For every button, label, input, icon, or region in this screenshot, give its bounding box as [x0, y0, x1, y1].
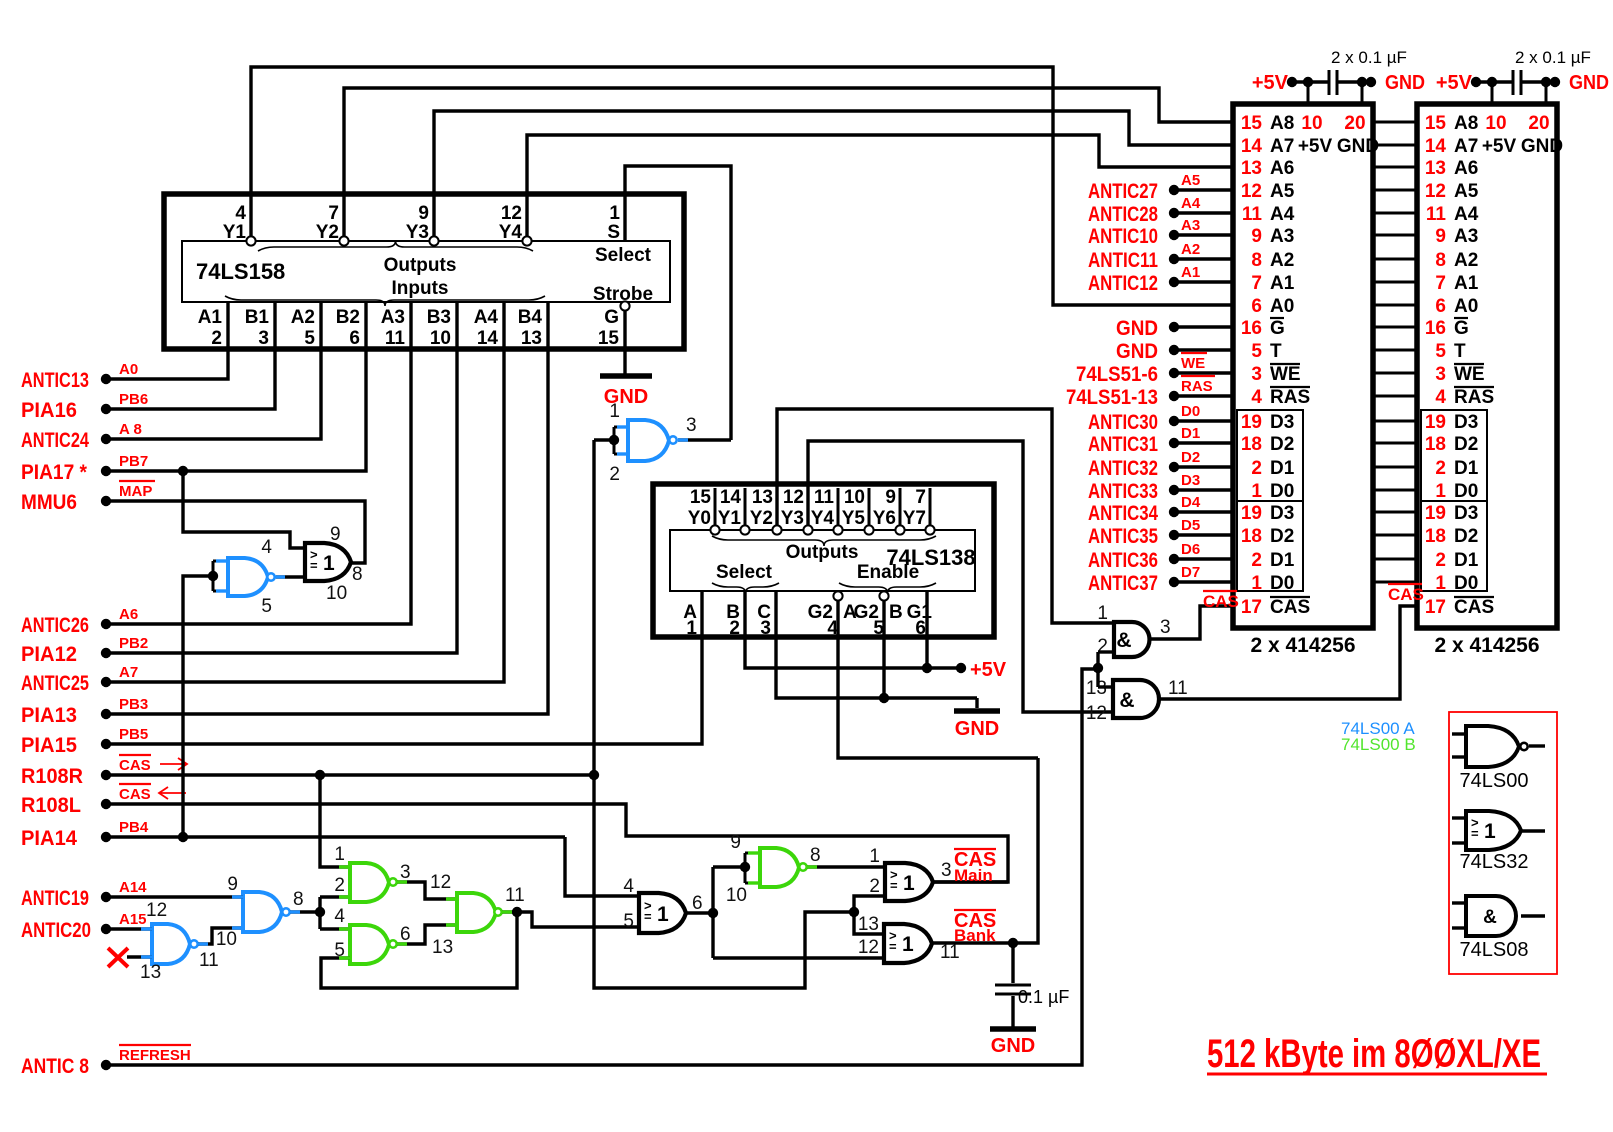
svg-text:D1: D1: [1454, 458, 1479, 479]
ground symbol U1 strobe: [600, 373, 652, 379]
svg-text:12: 12: [146, 900, 167, 921]
svg-text:12: 12: [858, 937, 879, 958]
svg-text:ANTIC28: ANTIC28: [1088, 203, 1158, 226]
svg-text:12: 12: [1425, 181, 1446, 202]
svg-text:A4: A4: [1270, 204, 1295, 225]
svg-text:4: 4: [261, 537, 272, 558]
svg-text:RAS: RAS: [1454, 387, 1494, 408]
svg-text:16: 16: [1241, 318, 1262, 339]
svg-text:9: 9: [885, 487, 896, 508]
wire B1 pin to PB6: [106, 302, 275, 409]
svg-text:3: 3: [1160, 617, 1171, 638]
svg-text:Y0: Y0: [688, 508, 711, 529]
U5 pin 9 circle: [895, 525, 904, 534]
74LS00A gate U2C body (A14): [243, 892, 282, 932]
svg-text:A3: A3: [381, 307, 405, 328]
74LS00B gate U4B body: [350, 925, 389, 964]
svg-text:2: 2: [609, 464, 620, 485]
svg-text:D2: D2: [1454, 434, 1478, 455]
svg-text:A0: A0: [1454, 296, 1478, 317]
svg-text:A4: A4: [1181, 195, 1201, 212]
wire PB7 branch to OR pin9: [183, 471, 305, 548]
svg-text:2: 2: [334, 875, 345, 896]
junction PB4: [178, 832, 188, 842]
svg-text:PIA16: PIA16: [21, 399, 77, 422]
svg-text:+5V: +5V: [1436, 72, 1473, 94]
svg-text:12: 12: [1241, 181, 1262, 202]
brace outputs U1: [258, 241, 533, 251]
U3C output wire: [933, 880, 1008, 883]
U3B output wire: [686, 911, 713, 914]
wire A14 to U2C pin9: [106, 895, 243, 898]
svg-text:A3: A3: [1270, 226, 1294, 247]
svg-text:15: 15: [1241, 113, 1263, 134]
svg-text:PB3: PB3: [119, 696, 148, 713]
svg-text:A0: A0: [119, 361, 138, 378]
U4C output wire: [502, 912, 639, 927]
svg-text:2: 2: [1251, 550, 1262, 571]
svg-text:14: 14: [1425, 136, 1447, 157]
svg-text:D1: D1: [1454, 550, 1479, 571]
svg-text:2: 2: [1435, 458, 1446, 479]
svg-text:A15: A15: [119, 911, 147, 928]
svg-text:18: 18: [1425, 434, 1446, 455]
svg-text:10: 10: [1485, 113, 1506, 134]
svg-text:1: 1: [1097, 603, 1108, 624]
U1 output pin circle x=344: [339, 236, 348, 245]
wire PB4 to OR pin4: [565, 837, 639, 896]
GND terminal C1: [1357, 77, 1367, 87]
74LS00B gate U4C body: [457, 893, 496, 932]
svg-text:S: S: [607, 222, 620, 243]
svg-text:15: 15: [690, 487, 712, 508]
U5 pin 12 circle: [803, 525, 812, 534]
svg-text:15: 15: [598, 328, 620, 349]
wire Y3 to A7: [434, 111, 1233, 236]
wire U5 pin B to +5V: [745, 591, 961, 668]
svg-text:9: 9: [418, 203, 429, 224]
74LS00B gate U4D body: [760, 848, 799, 887]
C1 pin stubs: [1307, 82, 1310, 104]
U1 strobe pin circle: [620, 301, 629, 310]
74LS00B gate U4D bubble: [799, 863, 806, 870]
U1 output pin circle x=527: [522, 236, 531, 245]
U5 pin 10 stub: [868, 488, 871, 525]
svg-text:1: 1: [334, 844, 345, 865]
74LS32 gate U3C body (CAS Main): [885, 863, 933, 901]
U5 pin 7 stub: [929, 488, 932, 525]
ground symbol U5: [954, 708, 1000, 714]
svg-text:17: 17: [1241, 597, 1262, 618]
svg-text:2: 2: [1435, 550, 1446, 571]
X no-connect mark: [108, 948, 128, 967]
svg-text:18: 18: [1241, 434, 1262, 455]
wire CAS right line: [106, 773, 594, 776]
svg-text:D0: D0: [1454, 573, 1478, 594]
svg-text:A2: A2: [1454, 250, 1478, 271]
svg-text:A6: A6: [1454, 158, 1478, 179]
IC U1 74LS158 inner box: [182, 241, 670, 302]
svg-text:8: 8: [293, 889, 304, 910]
svg-text:20: 20: [1344, 113, 1365, 134]
svg-text:1: 1: [1251, 573, 1262, 594]
svg-text:4: 4: [235, 203, 246, 224]
svg-text:+5V: +5V: [1298, 136, 1333, 157]
svg-text:15: 15: [1425, 113, 1447, 134]
svg-text:Y1: Y1: [223, 222, 247, 243]
U2D output wire: [198, 928, 243, 944]
svg-text:Inputs: Inputs: [392, 278, 449, 299]
svg-text:1: 1: [903, 872, 915, 895]
svg-text:ANTIC34: ANTIC34: [1088, 502, 1158, 525]
svg-text:T: T: [1270, 341, 1282, 362]
svg-text:RAS: RAS: [1181, 378, 1213, 395]
svg-text:4: 4: [1435, 387, 1446, 408]
svg-text:CAS: CAS: [119, 757, 151, 774]
74LS00A gate U2D body (A15): [152, 924, 190, 964]
U5 pin 14 circle: [740, 525, 749, 534]
svg-text:REFRESH: REFRESH: [119, 1047, 191, 1064]
svg-text:6: 6: [1435, 296, 1446, 317]
svg-text:4: 4: [334, 906, 345, 927]
C2 pin stubs: [1491, 82, 1494, 104]
74LS00A gate U2A body: [628, 420, 669, 461]
svg-text:74LS158: 74LS158: [196, 259, 285, 284]
svg-text:WE: WE: [1454, 364, 1485, 385]
svg-text:G: G: [1270, 318, 1285, 339]
svg-text:R108L: R108L: [21, 794, 81, 817]
74LS00B gate U4B bubble: [389, 940, 396, 947]
svg-text:1: 1: [323, 552, 335, 575]
svg-text:=: =: [310, 558, 318, 573]
svg-text:A7: A7: [1270, 136, 1294, 157]
svg-text:B4: B4: [518, 307, 543, 328]
junction G2B/GND: [879, 693, 889, 703]
svg-text:A5: A5: [1181, 172, 1200, 189]
svg-text:D7: D7: [1181, 564, 1200, 581]
svg-text:GND: GND: [1337, 136, 1379, 157]
svg-text:19: 19: [1425, 412, 1446, 433]
U4B pin5 feedback wire: [321, 912, 517, 988]
svg-text:74LS51-6: 74LS51-6: [1076, 363, 1158, 386]
svg-text:PB7: PB7: [119, 453, 148, 470]
74LS00A gate U2B bubble: [267, 573, 274, 580]
svg-text:A1: A1: [1181, 264, 1200, 281]
74LS08 gate U6B body: [1113, 680, 1159, 718]
74LS00B gate U4A bubble: [389, 878, 396, 885]
svg-text:2: 2: [869, 876, 880, 897]
svg-text:CAS: CAS: [1270, 597, 1310, 618]
svg-text:ANTIC26: ANTIC26: [21, 614, 89, 637]
U5 pin 15 stub: [714, 488, 717, 525]
svg-text:13: 13: [858, 914, 879, 935]
svg-text:10: 10: [216, 929, 237, 950]
svg-text:Y7: Y7: [903, 508, 926, 529]
svg-text:WE: WE: [1181, 355, 1205, 372]
svg-text:GND: GND: [1385, 72, 1425, 94]
svg-text:12: 12: [430, 872, 451, 893]
svg-text:GND: GND: [1569, 72, 1609, 94]
svg-text:9: 9: [1251, 226, 1262, 247]
svg-text:Outputs: Outputs: [384, 255, 457, 276]
svg-text:Y1: Y1: [718, 508, 742, 529]
svg-text:T: T: [1454, 341, 1466, 362]
svg-text:D3: D3: [1270, 503, 1294, 524]
74LS00A gate U2A bubble: [669, 436, 676, 443]
svg-text:PB5: PB5: [119, 726, 148, 743]
svg-text:7: 7: [1435, 273, 1446, 294]
74LS00A gate U2C bubble: [282, 908, 289, 915]
U5 pin 9 stub: [899, 488, 902, 525]
wire A4 pin to A7: [106, 302, 504, 682]
svg-text:10: 10: [326, 583, 347, 604]
svg-text:Y4: Y4: [499, 222, 523, 243]
svg-text:PB4: PB4: [119, 819, 149, 836]
U5 G2A circle: [833, 591, 842, 600]
wire to CAS-Main pin2: [854, 896, 885, 912]
svg-text:ANTIC37: ANTIC37: [1088, 572, 1158, 595]
legend 74LS00 gate: [1452, 732, 1467, 735]
svg-text:Y3: Y3: [781, 508, 804, 529]
svg-text:8: 8: [810, 845, 821, 866]
svg-text:ANTIC25: ANTIC25: [21, 672, 89, 695]
svg-text:2 x 0.1 µF: 2 x 0.1 µF: [1331, 48, 1407, 67]
74LS32 gate U3A body (MAP or-gate): [305, 543, 351, 581]
U7 D-group box 1: [1237, 410, 1303, 501]
svg-text:7: 7: [328, 203, 339, 224]
svg-text:11: 11: [199, 950, 219, 971]
svg-text:A 8: A 8: [119, 421, 142, 438]
svg-text:2: 2: [1251, 458, 1262, 479]
ground symbol C3: [990, 1026, 1036, 1032]
junction CAS Bank out: [1008, 938, 1018, 948]
svg-text:13: 13: [521, 328, 542, 349]
wires between U7 and U8: [1373, 121, 1417, 124]
wire CAS-left from CAS-Main output: [106, 804, 1008, 882]
junction PB7: [178, 466, 188, 476]
legend box: [1449, 712, 1557, 974]
svg-text:=: =: [1471, 826, 1479, 841]
svg-text:9: 9: [330, 524, 341, 545]
svg-text:19: 19: [1425, 503, 1446, 524]
svg-text:A7: A7: [119, 664, 138, 681]
legend 74LS08 gate: [1452, 901, 1467, 904]
svg-text:13: 13: [432, 937, 453, 958]
wire GND stub U5: [975, 698, 978, 708]
wire to CAS-Bank pin13: [854, 912, 884, 934]
svg-text:&: &: [1116, 629, 1131, 652]
wire B4 pin to PB3: [106, 302, 548, 714]
svg-text:PIA17 *: PIA17 *: [21, 461, 88, 484]
svg-text:10: 10: [1301, 113, 1322, 134]
U2B output wire: [276, 575, 305, 578]
svg-text:5: 5: [1435, 341, 1446, 362]
svg-text:6: 6: [692, 893, 703, 914]
U5 G2B circle: [879, 591, 888, 600]
svg-text:11: 11: [505, 885, 525, 906]
U5 pin 14 stub: [744, 488, 747, 525]
svg-text:2 x 0.1 µF: 2 x 0.1 µF: [1515, 48, 1591, 67]
U4A output wire: [397, 882, 457, 899]
junction REFRESH: [1093, 663, 1103, 673]
svg-text:PIA13: PIA13: [21, 704, 77, 727]
svg-text:13: 13: [752, 487, 773, 508]
wire U3B out to CASBank pin12: [713, 956, 884, 959]
svg-text:6: 6: [1251, 296, 1262, 317]
svg-text:Select: Select: [595, 245, 652, 266]
wire CAS to green NAND1 pin1: [320, 775, 350, 867]
svg-text:6: 6: [349, 328, 360, 349]
svg-text:11: 11: [940, 942, 960, 963]
svg-text:2 x 414256: 2 x 414256: [1250, 634, 1355, 657]
svg-text:17: 17: [1425, 597, 1446, 618]
svg-text:A8: A8: [1454, 113, 1478, 134]
svg-text:13: 13: [1425, 158, 1446, 179]
wire U5 pin C to GND: [776, 591, 977, 698]
U1 output pin circle x=434: [429, 236, 438, 245]
svg-text:9: 9: [1435, 226, 1446, 247]
svg-text:14: 14: [720, 487, 742, 508]
svg-text:ANTIC33: ANTIC33: [1088, 480, 1158, 503]
svg-text:A1: A1: [1454, 273, 1479, 294]
svg-text:6: 6: [915, 618, 926, 639]
wire U2C out to green pins 2/4: [318, 897, 321, 929]
svg-text:WE: WE: [1270, 364, 1301, 385]
U3D output wire: [932, 758, 1038, 943]
svg-text:A5: A5: [1270, 181, 1295, 202]
svg-text:1: 1: [1435, 481, 1446, 502]
svg-text:10: 10: [726, 885, 747, 906]
svg-text:D2: D2: [1454, 526, 1478, 547]
svg-text:D6: D6: [1181, 541, 1200, 558]
svg-text:D1: D1: [1181, 425, 1200, 442]
svg-text:ANTIC10: ANTIC10: [1088, 225, 1158, 248]
svg-text:ANTIC32: ANTIC32: [1088, 457, 1158, 480]
svg-text:D3: D3: [1181, 472, 1200, 489]
IC U7 2x414256 box: [1233, 104, 1373, 628]
wire X to U2D pin13: [127, 955, 152, 958]
wire B3 pin to PB2: [106, 302, 457, 653]
svg-text:8: 8: [352, 564, 363, 585]
svg-text:8: 8: [1251, 250, 1262, 271]
svg-text:Y2: Y2: [316, 222, 339, 243]
wire PB5 to 74LS138 pin A: [106, 591, 702, 744]
junction U4C out: [512, 907, 522, 917]
svg-text:74LS08: 74LS08: [1460, 939, 1529, 961]
svg-text:Y6: Y6: [873, 508, 896, 529]
svg-text:A2: A2: [1270, 250, 1294, 271]
wire G strobe to GND: [623, 311, 626, 374]
svg-text:A8: A8: [1270, 113, 1294, 134]
svg-text:=: =: [890, 878, 898, 893]
74LS08 gate U6A body: [1114, 622, 1150, 657]
svg-text:19: 19: [1241, 503, 1262, 524]
svg-text:11: 11: [385, 328, 406, 349]
junction G1/+5V: [922, 663, 932, 673]
svg-text:+5V: +5V: [1482, 136, 1517, 157]
svg-text:12: 12: [501, 203, 522, 224]
capacitor C3: [995, 984, 1031, 987]
svg-text:MMU6: MMU6: [21, 491, 77, 514]
svg-text:PIA12: PIA12: [21, 643, 77, 666]
svg-text:3: 3: [686, 415, 697, 436]
wire Y1 to A0: [251, 67, 1233, 305]
svg-text:ANTIC19: ANTIC19: [21, 887, 89, 910]
svg-text:PIA14: PIA14: [21, 827, 77, 850]
wire A1 pin to A0 input: [106, 302, 228, 379]
svg-text:CAS: CAS: [1388, 585, 1424, 604]
svg-text:Y3: Y3: [406, 222, 429, 243]
svg-text:D0: D0: [1270, 573, 1294, 594]
wire U5 pin G1 down: [925, 591, 928, 668]
svg-text:GND: GND: [955, 718, 999, 740]
svg-text:ANTIC36: ANTIC36: [1088, 549, 1158, 572]
74LS00A gate U2B input tie: [212, 561, 215, 591]
U5 pin 7 circle: [925, 525, 934, 534]
svg-text:11: 11: [1168, 678, 1188, 699]
wire C3 to ground: [1011, 996, 1014, 1027]
wire REFRESH: [106, 669, 1098, 1065]
C2 wiring: [1476, 80, 1512, 83]
svg-text:4: 4: [1251, 387, 1262, 408]
svg-text:12: 12: [1086, 703, 1107, 724]
svg-text:GND: GND: [1521, 136, 1563, 157]
svg-text:3: 3: [760, 618, 771, 639]
svg-text:D3: D3: [1454, 503, 1478, 524]
U5 pin 11 stub: [837, 488, 840, 525]
svg-text:3: 3: [941, 860, 952, 881]
legend 74LS32 gate: [1452, 816, 1467, 819]
svg-text:ANTIC13: ANTIC13: [21, 369, 89, 392]
wire U3B out up to U4D: [711, 867, 714, 958]
svg-text:D3: D3: [1270, 412, 1294, 433]
svg-text:74LS00 B: 74LS00 B: [1341, 735, 1416, 754]
svg-text:3: 3: [400, 862, 411, 883]
svg-text:A5: A5: [1454, 181, 1479, 202]
svg-text:10: 10: [430, 328, 451, 349]
svg-text:D4: D4: [1181, 494, 1201, 511]
svg-text:+5V: +5V: [1252, 72, 1289, 94]
svg-text:ANTIC11: ANTIC11: [1088, 249, 1158, 272]
U8 D-group box 1: [1421, 410, 1487, 501]
svg-text:A1: A1: [198, 307, 223, 328]
svg-text:5: 5: [623, 911, 634, 932]
74LS32 gate U3D body (CAS Bank): [884, 924, 932, 963]
svg-text:1: 1: [609, 401, 620, 422]
svg-text:11: 11: [814, 487, 835, 508]
svg-text:14: 14: [1241, 136, 1263, 157]
U5 pin 11 circle: [833, 525, 842, 534]
svg-text:5: 5: [261, 596, 272, 617]
svg-text:19: 19: [1241, 412, 1262, 433]
svg-text:G: G: [1454, 318, 1469, 339]
svg-text:3: 3: [1251, 364, 1262, 385]
svg-text:D2: D2: [1181, 449, 1200, 466]
svg-text:3: 3: [258, 328, 269, 349]
svg-text:B: B: [889, 602, 903, 623]
svg-text:D0: D0: [1454, 481, 1478, 502]
U4B output wire: [397, 925, 457, 944]
svg-text:ANTIC12: ANTIC12: [1088, 272, 1158, 295]
svg-text:Y2: Y2: [750, 508, 773, 529]
junction U2C out: [315, 907, 325, 917]
svg-text:MAP: MAP: [119, 483, 152, 500]
svg-text:74LS32: 74LS32: [1460, 851, 1529, 873]
junction U2B input: [208, 571, 218, 581]
svg-text:A7: A7: [1454, 136, 1478, 157]
svg-text:D3: D3: [1454, 412, 1478, 433]
wire PB4 up to NAND U2B input: [183, 576, 213, 837]
